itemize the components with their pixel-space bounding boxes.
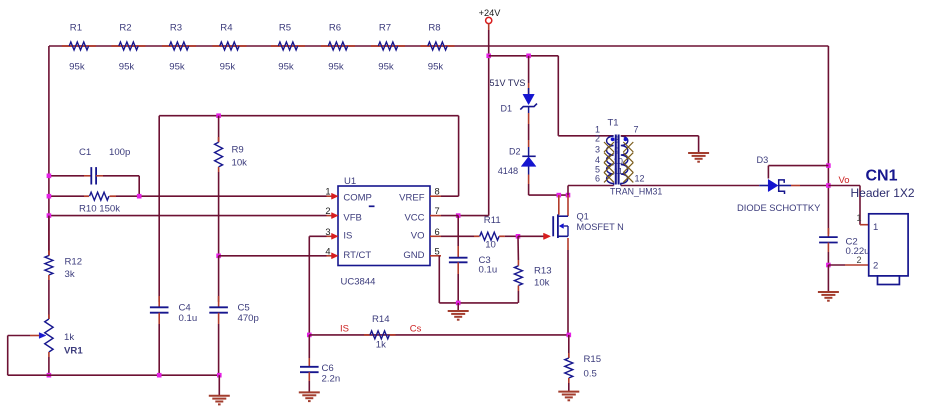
diode D2 4148 xyxy=(528,140,530,147)
node rail-C1 xyxy=(47,174,52,179)
svg-text:2: 2 xyxy=(857,255,862,265)
node C4 bottom xyxy=(157,373,162,378)
node IS junction xyxy=(307,333,312,338)
wire D2 cathode to drain node xyxy=(528,175,530,185)
svg-text:4: 4 xyxy=(325,246,330,256)
resistor R3 95k xyxy=(162,45,196,47)
svg-text:R9: R9 xyxy=(232,145,244,156)
resistor R1 95k xyxy=(62,45,96,47)
svg-text:D3: D3 xyxy=(757,155,769,165)
resistor R8 95k xyxy=(421,45,455,47)
svg-text:4148: 4148 xyxy=(498,166,518,176)
svg-text:D2: D2 xyxy=(509,147,521,157)
wire +24V vertical to VCC xyxy=(488,24,490,30)
node gate junction xyxy=(516,234,521,239)
wire left rail down from chain xyxy=(48,46,50,256)
resistor R9 10k xyxy=(218,116,220,143)
ground bottom rail xyxy=(218,375,220,395)
svg-text:COMP: COMP xyxy=(343,193,372,204)
svg-text:VFB: VFB xyxy=(343,212,361,223)
wire IS to Cs xyxy=(309,334,569,336)
svg-text:95k: 95k xyxy=(428,62,444,73)
wire CN1 pin2 xyxy=(828,264,845,266)
node rail-VFB xyxy=(47,213,52,218)
svg-text:R2: R2 xyxy=(119,23,131,34)
svg-text:R11: R11 xyxy=(484,215,501,226)
node rail bottom xyxy=(47,373,52,378)
svg-text:MOSFET N: MOSFET N xyxy=(577,222,624,232)
svg-text:UC3844: UC3844 xyxy=(341,277,376,288)
svg-text:95k: 95k xyxy=(378,62,394,73)
wire VREF loop xyxy=(441,195,459,197)
capacitor C3 0.1u xyxy=(457,216,459,246)
svg-text:10k: 10k xyxy=(232,158,248,169)
svg-text:2: 2 xyxy=(873,261,878,272)
ground C2 xyxy=(827,265,829,292)
diode D1 51V TVS xyxy=(528,56,530,83)
svg-text:5: 5 xyxy=(435,246,440,256)
svg-text:C1: C1 xyxy=(79,147,91,158)
svg-text:Cs: Cs xyxy=(410,324,422,335)
svg-text:C5: C5 xyxy=(238,303,250,314)
resistor R14 1k xyxy=(364,334,370,336)
svg-text:R7: R7 xyxy=(379,23,391,34)
svg-text:470p: 470p xyxy=(238,313,259,324)
svg-text:100p: 100p xyxy=(109,147,130,158)
node C1-R10 junction xyxy=(137,194,142,199)
wire primary bottom to drain xyxy=(568,185,614,187)
svg-text:7: 7 xyxy=(435,206,440,216)
svg-text:IS: IS xyxy=(343,231,352,242)
wire GND pin5 loop xyxy=(438,256,440,303)
svg-text:1: 1 xyxy=(325,187,330,197)
svg-text:CN1: CN1 xyxy=(866,168,898,185)
svg-text:DIODE SCHOTTKY: DIODE SCHOTTKY xyxy=(737,202,821,213)
resistor R2 95k xyxy=(112,45,146,47)
svg-text:95k: 95k xyxy=(169,62,185,73)
svg-text:Header 1X2: Header 1X2 xyxy=(851,186,915,200)
node Cs-R15 xyxy=(567,333,572,338)
svg-text:R3: R3 xyxy=(170,23,182,34)
node RT/CT junction xyxy=(216,254,221,259)
svg-text:GND: GND xyxy=(403,250,424,261)
wire Vo to CN1 pin1 xyxy=(828,185,860,187)
svg-text:0.5: 0.5 xyxy=(584,369,597,380)
svg-text:1: 1 xyxy=(857,213,862,223)
svg-text:3k: 3k xyxy=(65,269,75,280)
node R9 top xyxy=(216,113,221,118)
svg-text:6: 6 xyxy=(435,227,440,237)
svg-text:R15: R15 xyxy=(584,354,602,365)
resistor R4 95k xyxy=(212,45,246,47)
svg-text:R12: R12 xyxy=(65,257,83,268)
svg-text:0.1u: 0.1u xyxy=(479,265,498,276)
pin 2 U1 xyxy=(327,215,333,217)
svg-text:1k: 1k xyxy=(64,332,74,343)
pin 6 U1 xyxy=(430,235,441,237)
svg-text:U1: U1 xyxy=(344,176,356,187)
svg-text:R10 150k: R10 150k xyxy=(79,204,120,215)
node divider tap xyxy=(826,163,831,168)
resistor R12 3k xyxy=(48,216,50,256)
resistor R11 10 xyxy=(441,235,474,237)
svg-text:C6: C6 xyxy=(322,363,334,374)
svg-text:7: 7 xyxy=(634,125,639,135)
node clamp-drain junction B xyxy=(566,193,571,198)
resistor R10 150k xyxy=(49,195,84,197)
resistor R13 10k xyxy=(517,236,519,260)
potentiometer VR1 1k xyxy=(48,315,50,320)
wire pin3 IS loop xyxy=(309,235,326,237)
svg-text:TRAN_HM31: TRAN_HM31 xyxy=(610,186,662,196)
svg-text:+24V: +24V xyxy=(479,8,502,18)
capacitor C6 2.2n xyxy=(308,335,310,358)
node VCC junction xyxy=(456,213,461,218)
svg-text:R14: R14 xyxy=(372,314,390,325)
svg-text:95k: 95k xyxy=(278,62,294,73)
node Vo xyxy=(826,183,831,188)
capacitor C5 470p xyxy=(218,296,220,307)
svg-text:RT/CT: RT/CT xyxy=(343,250,371,261)
svg-text:R4: R4 xyxy=(220,23,233,34)
capacitor C2 0.22u xyxy=(827,228,829,237)
svg-text:1: 1 xyxy=(873,222,878,233)
resistor R7 95k xyxy=(371,45,405,47)
wire gate lead xyxy=(518,235,544,237)
node GND junction xyxy=(456,301,461,306)
pin 5 U1 xyxy=(430,255,441,257)
wire right rail xyxy=(827,46,829,234)
wire clamp branch xyxy=(489,55,559,57)
ground secondary xyxy=(688,152,709,154)
svg-text:R5: R5 xyxy=(279,23,291,34)
pin 8 U1 xyxy=(430,195,441,197)
node C5 bottom xyxy=(217,373,222,378)
resistor R15 0.5 xyxy=(568,335,570,358)
wire R9 down to C5 xyxy=(218,256,220,302)
resistor R5 95k xyxy=(271,45,305,47)
svg-text:C4: C4 xyxy=(179,303,192,314)
node C2 bottom xyxy=(826,263,831,268)
svg-text:D1: D1 xyxy=(501,104,513,114)
pin 7 U1 xyxy=(430,215,441,217)
svg-text:95k: 95k xyxy=(328,62,344,73)
node +24V branch xyxy=(486,54,491,59)
ground R15 xyxy=(558,391,579,393)
svg-text:12: 12 xyxy=(635,173,645,183)
svg-text:R13: R13 xyxy=(534,266,552,277)
svg-text:1k: 1k xyxy=(376,340,386,351)
svg-text:R8: R8 xyxy=(428,23,440,34)
wire RT/CT to pin4 xyxy=(219,255,327,257)
transformer T1 TRAN_HM31 xyxy=(595,118,662,197)
svg-text:3: 3 xyxy=(325,227,330,237)
pin 4 U1 xyxy=(327,255,333,257)
svg-text:VCC: VCC xyxy=(404,212,424,223)
diode D3 schottky xyxy=(759,185,768,187)
svg-text:2: 2 xyxy=(595,134,600,144)
pin 3 U1 xyxy=(327,235,333,237)
svg-text:3: 3 xyxy=(595,144,600,154)
svg-text:Q1: Q1 xyxy=(577,212,589,222)
svg-text:R6: R6 xyxy=(329,23,341,34)
svg-text:95k: 95k xyxy=(119,62,135,73)
svg-text:VR1: VR1 xyxy=(64,346,83,357)
svg-text:6: 6 xyxy=(595,173,600,183)
svg-text:VREF: VREF xyxy=(399,193,425,204)
svg-text:10: 10 xyxy=(485,240,496,251)
wire +24V to transformer primary xyxy=(557,56,559,136)
capacitor C4 0.1u xyxy=(158,296,160,307)
svg-text:Vo: Vo xyxy=(839,175,850,186)
wire D1 to D2 xyxy=(528,113,530,124)
ground U1 xyxy=(457,303,459,311)
ground C6 xyxy=(299,391,320,393)
capacitor C1 100p xyxy=(49,175,84,177)
node rail-R10 xyxy=(47,194,52,199)
svg-text:IS: IS xyxy=(340,324,349,335)
wire secondary bottom to D3 xyxy=(621,185,760,187)
wire top feedback rail xyxy=(49,45,828,47)
op-amp U1 UC3844 body xyxy=(338,186,430,266)
wire VFB to rail xyxy=(49,215,327,217)
svg-text:VO: VO xyxy=(411,231,425,242)
pin 1 U1 xyxy=(327,195,333,197)
wire bottom common rail xyxy=(8,374,220,376)
wire D3 bypass xyxy=(768,165,828,167)
svg-text:51V TVS: 51V TVS xyxy=(490,78,526,88)
connector CN1 Header 1X2 xyxy=(851,168,915,285)
svg-text:95k: 95k xyxy=(220,62,236,73)
transistor Q1 MOSFET N xyxy=(553,195,624,238)
svg-text:0.1u: 0.1u xyxy=(179,313,198,324)
svg-text:8: 8 xyxy=(435,187,440,197)
resistor R6 95k xyxy=(321,45,355,47)
svg-text:2: 2 xyxy=(325,206,330,216)
node clamp-drain junction A xyxy=(557,193,562,198)
svg-text:2.2n: 2.2n xyxy=(322,374,341,385)
wire source down to Cs xyxy=(567,238,569,250)
svg-text:95k: 95k xyxy=(69,62,85,73)
svg-text:T1: T1 xyxy=(608,118,619,129)
svg-text:R1: R1 xyxy=(70,23,82,34)
wire secondary pin7 to ground xyxy=(621,135,699,137)
svg-text:10k: 10k xyxy=(534,278,550,289)
